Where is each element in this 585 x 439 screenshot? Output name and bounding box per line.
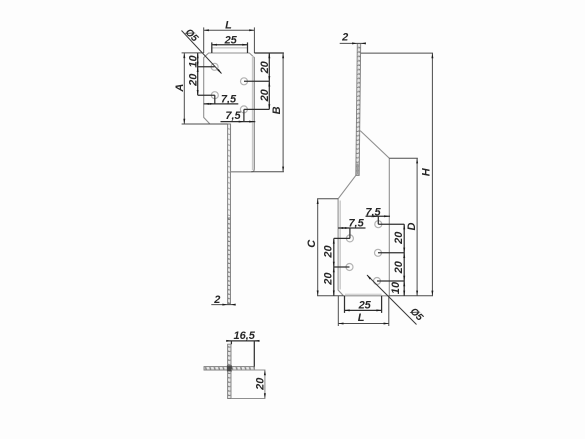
dimension 7,5 fig2 lower [338,228,365,238]
fig1 right lower panel edge [231,171,252,173]
dimension 20 fig3 [264,370,266,375]
fig3 horizontal strip [204,367,254,370]
hole fig2 left-2 [346,264,353,271]
svg-text:2: 2 [341,32,348,44]
dimension chain 20/20/10 fig2 right [377,224,404,296]
svg-text:16,5: 16,5 [233,330,255,342]
svg-text:A: A [174,84,186,93]
hole fig1 low-left [211,92,218,99]
dimension C fig2 [317,199,343,296]
svg-text:L: L [225,20,232,32]
svg-text:7,5: 7,5 [221,94,237,106]
dimension L fig1 [204,27,255,53]
svg-text:20: 20 [323,245,335,259]
svg-text:10: 10 [390,281,402,294]
dimension 25 fig2 bottom [345,296,382,313]
fig2 bend band on left edge [339,201,341,290]
svg-text:Ø5: Ø5 [408,306,426,324]
dimension A fig1 [182,53,228,124]
svg-text:20: 20 [188,73,200,87]
hole fig2 left-1 [346,235,353,242]
svg-text:B: B [271,106,283,114]
dimension 7,5 fig2 upper [366,216,391,224]
hole fig1 low-right [240,106,247,113]
fig2 strip bend darker segment [357,164,359,175]
svg-text:C: C [306,239,318,248]
svg-text:20: 20 [393,231,405,245]
dimension 7,5 fig1 upper [204,95,239,104]
fig2 plate outline [338,131,389,296]
svg-text:20: 20 [254,377,266,391]
dimension L fig2 bottom [338,296,389,326]
fig1 plate outline [204,53,255,172]
svg-text:7,5: 7,5 [225,110,241,122]
leader diameter 5 fig1 [182,31,222,74]
svg-text:Ø5: Ø5 [183,27,201,45]
fig1 leg strip (section, thickness 2) [228,124,231,304]
svg-text:10: 10 [187,55,199,68]
svg-text:20: 20 [323,272,335,286]
dimension 16,5 fig3 [227,341,259,367]
leader diameter 5 fig2 [367,275,417,325]
svg-text:H: H [420,167,432,176]
svg-text:L: L [358,312,365,324]
svg-text:20: 20 [393,260,405,274]
svg-text:7,5: 7,5 [365,206,381,218]
svg-text:25: 25 [358,299,372,311]
svg-text:20: 20 [259,60,271,74]
hole fig1 top-left [211,63,218,70]
dimension chain 10/20 fig1 left [198,53,215,95]
hole fig2 right-2 [375,249,382,256]
svg-text:25: 25 [224,34,238,46]
svg-text:7,5: 7,5 [348,218,364,230]
hole fig1 mid-right [241,78,248,85]
fig3 square 20x25 [231,370,265,399]
fig2 bottom bend line [345,293,382,295]
dimension B fig1 [251,53,284,172]
svg-text:20: 20 [259,88,271,102]
fig3 crossing blob [227,365,232,371]
dimension 25 fig1 [212,42,248,53]
dimension H fig2 [361,53,433,296]
fig3 vertical strip [228,344,231,398]
dimension chain 20/20 fig1 right [244,53,284,109]
dimension 7,5 fig1 lower [221,109,256,121]
dimension 2 fig2 top [340,42,365,44]
dimension 2 fig1 bottom of leg [211,304,235,306]
svg-text:2: 2 [213,294,220,306]
fig1 bend band on right edge [252,56,254,170]
fig1 top tab (25 wide) [212,48,248,53]
svg-text:D: D [406,222,418,230]
dimension chain 20/20 fig2 left [334,238,350,295]
dimension D fig2 [389,158,418,296]
fig2 top strip (section) [356,44,361,176]
hole fig2 right-1 [375,221,382,228]
hole fig2 right-3 [374,278,381,285]
